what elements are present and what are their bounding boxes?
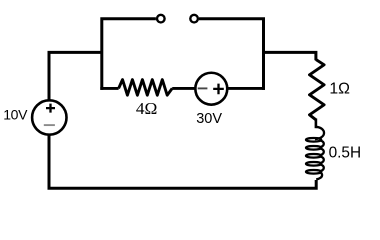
wire: middle branch stub between resistor and 30V source (172, 87, 196, 90)
plus sign of 10V source (46, 104, 55, 113)
inductor L1 turn connector 4 (321, 165, 324, 171)
wire: top-right wire from switch + right vertical junction (199, 19, 264, 90)
inductor L1 turn connector 1 (321, 141, 324, 147)
inductor L1 turn connector 3 (321, 157, 324, 163)
inductor L1 turn connector 2 (321, 149, 324, 155)
resistor R1 4ohm zigzag (119, 80, 173, 96)
plus sign of 30V source (213, 84, 224, 95)
wire: left branch below source + bottom wire + right rise (49, 134, 316, 188)
svg-text:30V: 30V (196, 111, 222, 127)
inductor L1 loop 1 (306, 138, 321, 142)
minus sign of 30V source (198, 87, 208, 89)
minus sign of 10V source (44, 124, 55, 126)
inductor L1 loop 4 (306, 162, 321, 166)
wire: right connector to right branch (264, 52, 316, 60)
inductor L1 loop 2 (306, 146, 321, 150)
inductor L1 bottom hook (316, 173, 322, 180)
voltage source V1 10V circle (32, 100, 66, 134)
inductor L1 loop 3 (306, 154, 321, 158)
wire: left vertical junction + top-left wire to switch (102, 19, 156, 90)
svg-text:10V: 10V (3, 107, 28, 123)
svg-text:0.5H: 0.5H (329, 144, 362, 161)
wire: middle branch stub left (100, 87, 118, 90)
wire: lead between 1ohm resistor and inductor (315, 119, 318, 129)
switch S1 right terminal (190, 15, 198, 23)
wire: left connector from source branch to junction (49, 52, 102, 101)
inductor L1 top hook (315, 127, 324, 139)
resistor R2 1ohm vertical zigzag (310, 60, 325, 120)
inductor L1 loop 5 (306, 170, 321, 174)
voltage source V2 30V circle (195, 73, 227, 105)
switch S1 left terminal (157, 15, 165, 23)
wire: middle branch stub right of 30V source (227, 87, 266, 90)
svg-text:1Ω: 1Ω (329, 80, 350, 97)
svg-text:4Ω: 4Ω (136, 99, 157, 118)
